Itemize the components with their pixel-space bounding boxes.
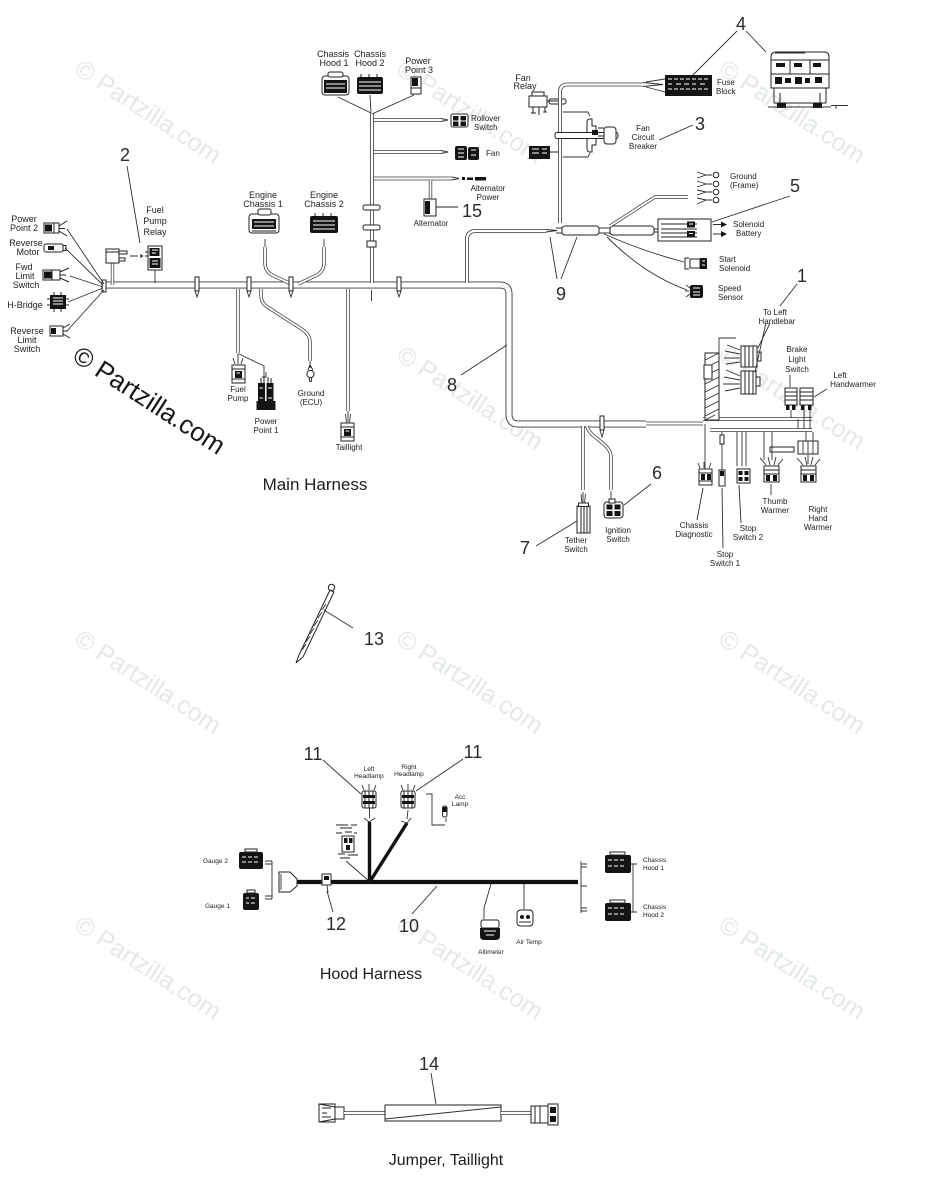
wire handlebar run upper <box>703 417 812 421</box>
clamp on bus 1 <box>195 277 199 297</box>
svg-text:Jumper, Taillight: Jumper, Taillight <box>389 1152 504 1169</box>
leader number 14 <box>431 1073 436 1104</box>
wire solenoid run links <box>556 228 658 233</box>
relay Fuel Pump Relay <box>145 246 162 270</box>
JUMPER <box>319 1073 558 1125</box>
svg-text:Chassis 2: Chassis 2 <box>304 199 344 209</box>
leader number 6 <box>624 484 651 505</box>
svg-text:15: 15 <box>462 201 482 221</box>
connector Start Solenoid <box>604 234 707 269</box>
wire taillight drop <box>346 289 349 411</box>
connector Stop Switch 1 <box>719 470 725 548</box>
bracket hood right <box>581 861 587 913</box>
svg-text:Handlebar: Handlebar <box>759 317 796 326</box>
terminals Ground Frame <box>697 172 719 204</box>
bracket fan circuit breaker <box>563 112 590 157</box>
connector Power Point 3 (top) <box>411 77 421 94</box>
svg-text:Chassis 1: Chassis 1 <box>243 199 283 209</box>
svg-text:Air Temp: Air Temp <box>516 939 542 946</box>
svg-text:Switch: Switch <box>474 123 498 132</box>
connector Gauge 2 <box>239 849 263 869</box>
svg-text:2: 2 <box>120 145 130 165</box>
svg-text:Fuse: Fuse <box>717 78 735 87</box>
wire engine chassis 2 drop <box>298 247 324 284</box>
svg-text:3: 3 <box>695 114 705 134</box>
wire chassis diagnostic drop <box>704 424 706 469</box>
svg-text:Power: Power <box>255 417 278 426</box>
connector jumper right <box>531 1104 558 1125</box>
connector fan relay plug <box>529 146 558 159</box>
svg-text:Fuel: Fuel <box>230 385 246 394</box>
svg-text:4: 4 <box>736 14 746 34</box>
connector Rollover Switch <box>451 114 468 127</box>
svg-text:13: 13 <box>364 629 384 649</box>
node bus left tip <box>102 280 106 292</box>
clamp on bus 3 <box>289 277 293 297</box>
connector Speed Sensor <box>607 237 703 298</box>
svg-text:Switch: Switch <box>14 344 41 354</box>
COMPONENTS-RIGHT <box>127 31 827 548</box>
connector gauge trapezoid <box>279 872 297 892</box>
wire stop switch 1 drop <box>721 432 723 470</box>
svg-text:Right: Right <box>401 764 416 771</box>
svg-text:Right: Right <box>809 505 828 514</box>
svg-text:(ECU): (ECU) <box>300 398 323 407</box>
svg-text:Light: Light <box>788 355 806 364</box>
svg-text:Point 2: Point 2 <box>10 223 38 233</box>
wire right trunk to fuse block <box>560 85 643 224</box>
svg-text:Switch: Switch <box>564 545 588 554</box>
svg-text:Speed: Speed <box>718 284 741 293</box>
wire branch rollover switch <box>374 118 441 122</box>
svg-text:Chassis: Chassis <box>680 521 708 530</box>
svg-text:Relay: Relay <box>143 227 167 237</box>
wire thumb warmer drops <box>764 432 772 495</box>
leaders number 4 <box>693 31 766 75</box>
wire tether switch drop <box>581 426 584 490</box>
svg-text:Rollover: Rollover <box>471 114 501 123</box>
svg-text:Switch: Switch <box>606 535 630 544</box>
wire leaders top connectors to trunk <box>338 95 414 114</box>
wire trunk stub below bus <box>371 290 373 301</box>
connector Taillight <box>341 423 354 441</box>
svg-text:Hand: Hand <box>808 514 827 523</box>
svg-text:Ignition: Ignition <box>605 526 631 535</box>
svg-text:Thumb: Thumb <box>763 497 788 506</box>
clamp on lower run <box>600 416 604 437</box>
connector Reverse Limit Switch <box>50 324 70 338</box>
wrap bands on chassis-hood trunk <box>363 205 380 210</box>
HOOD <box>239 784 637 940</box>
wire left headlamp riser <box>368 822 371 882</box>
wire jumper left <box>344 1111 385 1114</box>
svg-text:Motor: Motor <box>16 247 39 257</box>
svg-text:Pump: Pump <box>143 216 167 226</box>
connector Power Point 2 <box>44 221 67 236</box>
svg-text:Handwarmer: Handwarmer <box>830 380 876 389</box>
svg-text:Fan: Fan <box>636 124 650 133</box>
leader number 12 <box>327 891 333 912</box>
clamp item 12 <box>322 874 331 893</box>
svg-text:Warmer: Warmer <box>804 523 832 532</box>
wire wrap segment C <box>610 226 654 235</box>
bracket Acc Lamp <box>426 794 446 825</box>
connector jumper left <box>319 1104 344 1122</box>
leader to left handlebar label <box>755 323 770 372</box>
wire main harness bus <box>104 285 646 424</box>
switch Ignition Switch <box>604 499 623 518</box>
connector Alternator Power tip <box>462 177 486 181</box>
connector Chassis Diagnostic <box>697 462 712 520</box>
wire diagonal to ground frame <box>610 197 688 226</box>
wire hood trunk <box>297 880 578 884</box>
leader number 7 <box>536 521 577 546</box>
wire right hand warmer drops <box>806 432 813 464</box>
svg-text:Fan: Fan <box>486 149 500 158</box>
connector Gauge 1 <box>243 890 259 910</box>
wire wrap segment B <box>562 226 599 235</box>
svg-text:Stop: Stop <box>740 524 757 533</box>
svg-text:Alternator: Alternator <box>471 184 506 193</box>
handlebar hatched bar <box>704 338 736 420</box>
bracket gauges <box>265 861 272 899</box>
leader number 10 <box>412 886 437 914</box>
wire fuel pump relay stalk <box>154 270 156 283</box>
connector Fan <box>455 146 479 160</box>
switch Tether Switch <box>577 503 590 533</box>
MAINWIRES <box>104 83 818 504</box>
leader number 9 V <box>550 237 577 279</box>
leader 11 left <box>323 760 361 794</box>
svg-text:Acc: Acc <box>455 794 467 801</box>
wire branch fan <box>374 150 441 154</box>
svg-text:11: 11 <box>464 742 483 762</box>
wire handlebar run lower <box>710 428 812 432</box>
svg-text:Hood 2: Hood 2 <box>643 912 664 919</box>
wrap band fan relay link <box>549 99 566 104</box>
svg-text:Chassis: Chassis <box>643 904 667 911</box>
connector relay socket <box>106 249 127 263</box>
wire power point 1 branch <box>239 354 264 377</box>
svg-text:Point 1: Point 1 <box>254 426 279 435</box>
svg-text:Warmer: Warmer <box>761 506 789 515</box>
svg-text:Stop: Stop <box>717 550 734 559</box>
svg-text:Taillight: Taillight <box>336 443 363 452</box>
svg-text:Left: Left <box>364 766 375 773</box>
svg-text:Pump: Pump <box>228 394 249 403</box>
connector Chassis Hood 1 (hood) <box>605 852 631 873</box>
svg-text:Left: Left <box>833 371 847 380</box>
connector Right Hand Warmer <box>797 457 820 482</box>
wire trunk to chassis-hood connectors <box>370 113 374 283</box>
svg-text:Ground: Ground <box>730 172 757 181</box>
svg-text:Switch 1: Switch 1 <box>710 559 741 568</box>
svg-text:Gauge 2: Gauge 2 <box>203 858 228 865</box>
svg-text:Switch 2: Switch 2 <box>733 533 764 542</box>
connector Chassis Hood 1 (top) <box>322 72 349 95</box>
svg-text:10: 10 <box>399 916 419 936</box>
svg-text:(Frame): (Frame) <box>730 181 759 190</box>
wire right headlamp diagonal <box>369 823 407 883</box>
wire stop switch 2 drops <box>737 432 746 466</box>
wire branch alternator power <box>374 177 452 181</box>
svg-text:Point 3: Point 3 <box>405 65 433 75</box>
svg-text:6: 6 <box>652 463 662 483</box>
svg-text:Block: Block <box>716 87 737 96</box>
cable tie item 13 <box>296 584 353 663</box>
relay hood relay block <box>336 825 369 881</box>
svg-text:Altimeter: Altimeter <box>478 949 504 956</box>
leader number 2 <box>127 166 140 243</box>
wire jog thumb warmer <box>770 447 794 452</box>
sleeve jumper <box>385 1105 501 1121</box>
connector Solenoid Battery <box>658 219 727 241</box>
svg-text:Hood 1: Hood 1 <box>643 865 664 872</box>
leader number 3 <box>659 125 693 140</box>
svg-text:H-Bridge: H-Bridge <box>7 300 43 310</box>
connector Left Headlamp <box>362 784 376 808</box>
wire ignition switch drop <box>587 426 611 490</box>
connector Power Point 1 <box>257 372 276 410</box>
COMPONENTS-LOWER <box>232 358 354 663</box>
svg-text:Hood 1: Hood 1 <box>319 58 348 68</box>
svg-text:Gauge 1: Gauge 1 <box>205 903 230 910</box>
svg-text:To Left: To Left <box>763 308 788 317</box>
svg-text:Main Harness: Main Harness <box>263 475 368 494</box>
svg-text:Solenoid: Solenoid <box>733 220 764 229</box>
leader number 5 <box>712 196 790 222</box>
wire relay socket stalk <box>111 263 114 285</box>
leader 11 right <box>416 759 463 791</box>
svg-text:11: 11 <box>304 744 323 764</box>
svg-text:Circuit: Circuit <box>632 133 655 142</box>
connector Fuse Block <box>646 75 712 96</box>
wire run to handlebar cluster <box>646 422 703 426</box>
svg-text:Start: Start <box>719 255 737 264</box>
svg-text:Solenoid: Solenoid <box>719 264 750 273</box>
svg-text:Alternator: Alternator <box>414 219 449 228</box>
svg-text:Breaker: Breaker <box>629 142 657 151</box>
svg-text:Chassis: Chassis <box>643 857 667 864</box>
svg-text:14: 14 <box>419 1054 439 1074</box>
terminal Ground ECU <box>307 361 314 382</box>
svg-text:Headlamp: Headlamp <box>394 771 424 778</box>
connector Engine Chassis 2 <box>310 213 338 233</box>
fuse box item 4 <box>768 52 848 109</box>
arrow dashed to fuel pump relay <box>130 255 143 258</box>
svg-text:1: 1 <box>797 266 807 286</box>
connector Stop Switch 2 <box>737 469 750 523</box>
svg-text:Sensor: Sensor <box>718 293 744 302</box>
svg-text:Ground: Ground <box>298 389 325 398</box>
svg-text:7: 7 <box>520 538 530 558</box>
svg-text:Lamp: Lamp <box>452 801 469 808</box>
wire ground ecu drop <box>261 289 310 361</box>
svg-text:9: 9 <box>556 284 566 304</box>
WATERMARKS <box>70 55 871 1026</box>
svg-text:8: 8 <box>447 375 457 395</box>
svg-text:Battery: Battery <box>736 229 761 238</box>
svg-text:Switch: Switch <box>785 365 809 374</box>
connector Right Headlamp <box>401 784 415 808</box>
svg-text:Hood Harness: Hood Harness <box>320 966 422 983</box>
wire alternator drop <box>429 180 432 199</box>
breaker Fan Circuit Breaker <box>555 119 618 152</box>
connector handlebar plug 2 <box>723 370 760 394</box>
svg-text:Brake: Brake <box>787 345 808 354</box>
bracket chassis hood pair <box>631 864 637 912</box>
connector Chassis Hood 2 (top) <box>357 74 383 94</box>
wire jumper right <box>501 1111 531 1114</box>
connector Fuel Pump <box>232 358 245 383</box>
svg-text:Hood 2: Hood 2 <box>355 58 384 68</box>
wire elbow bus to solenoid run <box>467 231 546 283</box>
svg-text:Tether: Tether <box>565 536 588 545</box>
svg-text:Switch: Switch <box>13 280 40 290</box>
wire fuel pump drop <box>236 289 239 353</box>
wire box right hand warmer <box>798 441 818 454</box>
leader number 8 <box>461 345 507 375</box>
connector H-Bridge <box>47 292 69 312</box>
svg-text:Diagnostic: Diagnostic <box>675 530 712 539</box>
svg-text:5: 5 <box>790 176 800 196</box>
connector Altimeter <box>480 884 500 940</box>
connector Fwd Limit Switch <box>43 268 69 282</box>
svg-text:Headlamp: Headlamp <box>354 773 384 780</box>
connector Air Temp <box>517 884 533 926</box>
svg-text:Relay: Relay <box>513 81 537 91</box>
connector Chassis Hood 2 (hood) <box>605 900 631 921</box>
connector Alternator <box>424 199 458 216</box>
lamp Acc Lamp <box>443 806 448 817</box>
svg-text:12: 12 <box>326 914 346 934</box>
wire fanout to left connectors <box>65 229 104 331</box>
clamp on bus 2 <box>247 277 251 297</box>
connector handlebar plug 1 <box>724 345 761 367</box>
connector Brake Light Switch <box>785 375 797 410</box>
leader number 1 <box>780 284 797 306</box>
COMPONENTS-TOP <box>43 52 848 437</box>
svg-text:Fuel: Fuel <box>146 205 164 215</box>
clamp on bus 4 <box>397 277 401 297</box>
relay Fan Relay <box>529 92 558 115</box>
wire stubs handlebar connectors <box>791 410 810 429</box>
connector Reverse Motor <box>44 244 66 252</box>
connector Thumb Warmer <box>760 457 783 482</box>
connector Left Handwarmer <box>800 388 827 410</box>
connector Engine Chassis 1 <box>249 209 279 233</box>
wire engine chassis 1 drop <box>265 247 291 284</box>
